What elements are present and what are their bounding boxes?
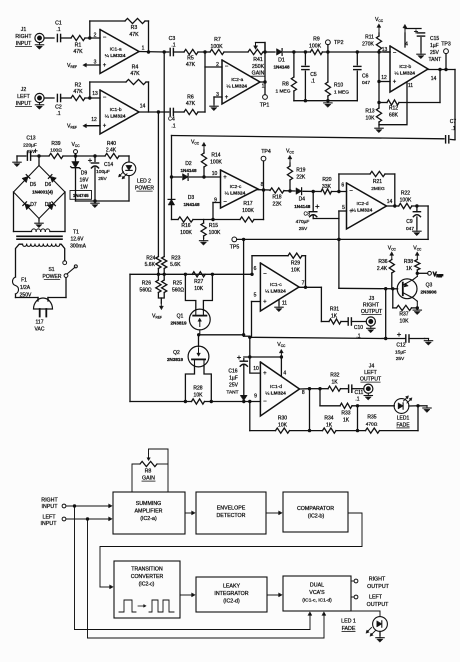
svg-text:R13: R13 xyxy=(365,109,374,115)
svg-text:22K: 22K xyxy=(273,201,283,207)
resistor R32 1K xyxy=(328,373,341,392)
svg-text:OUTPUT: OUTPUT xyxy=(360,377,382,383)
svg-text:C5: C5 xyxy=(310,72,317,78)
svg-text:D6: D6 xyxy=(45,182,52,188)
ground at bridge bottom xyxy=(35,219,43,228)
capacitor C2 .1 xyxy=(55,94,62,117)
svg-text:560Ω: 560Ω xyxy=(172,287,184,293)
svg-text:RIGHT: RIGHT xyxy=(363,303,380,309)
bridge rectifier D5-D8 xyxy=(14,166,66,219)
wires bridge to secondary xyxy=(14,192,66,232)
svg-text:12.6V: 12.6V xyxy=(70,237,84,243)
svg-text:C3: C3 xyxy=(169,36,176,42)
wire Q2 source to R28 xyxy=(204,367,211,402)
resistor R10 1 MEG xyxy=(325,82,349,96)
svg-text:C13: C13 xyxy=(26,136,35,142)
svg-text:100K: 100K xyxy=(210,44,223,50)
svg-text:2N3819: 2N3819 xyxy=(167,357,184,362)
svg-text:LEFT: LEFT xyxy=(364,370,378,376)
svg-text:−: − xyxy=(393,51,397,57)
resistor R19 22K xyxy=(287,166,306,180)
svg-text:47K: 47K xyxy=(186,101,196,107)
wire feedback IC2-d xyxy=(339,174,370,192)
svg-text:12: 12 xyxy=(381,75,387,81)
op-amp IC2-d 1/4 LM324 xyxy=(347,183,393,229)
wire feedback IC1-c xyxy=(252,256,288,275)
svg-text:1K: 1K xyxy=(326,422,333,428)
svg-text:POWER: POWER xyxy=(135,186,154,192)
svg-text:¼ LM324: ¼ LM324 xyxy=(265,391,286,397)
block COMPARATOR IC2-b xyxy=(283,492,348,532)
svg-text:RIGHT: RIGHT xyxy=(369,577,386,583)
wire to IC1-b pin 13 xyxy=(85,96,100,99)
svg-text:33K: 33K xyxy=(322,184,332,190)
block wire left input xyxy=(62,517,112,521)
svg-text:+: + xyxy=(263,371,267,377)
svg-text:INPUT: INPUT xyxy=(42,504,59,510)
svg-text:22K: 22K xyxy=(296,174,306,180)
wire xyxy=(356,406,359,433)
svg-text:R12: R12 xyxy=(389,106,398,112)
ground under LED 1 xyxy=(376,631,384,642)
wire IC1-a output node xyxy=(139,50,166,53)
svg-text:C10: C10 xyxy=(354,325,363,331)
wire xyxy=(412,204,428,207)
block potentiometer R8 GAIN xyxy=(140,449,168,482)
svg-text:¼ LM324: ¼ LM324 xyxy=(105,114,126,120)
wire IC1-c pin 11 xyxy=(279,300,287,307)
svg-text:D1: D1 xyxy=(278,58,285,64)
resistor R27 10K xyxy=(192,272,205,292)
svg-text:TP5: TP5 xyxy=(230,245,240,251)
capacitor C4 .1 xyxy=(168,108,176,129)
ground under C15 xyxy=(417,52,425,59)
svg-text:LED1: LED1 xyxy=(397,416,410,422)
wire control down to gates xyxy=(244,239,250,336)
resistor R15 100K xyxy=(201,220,221,239)
svg-text:INPUT: INPUT xyxy=(16,41,32,47)
svg-text:DUAL: DUAL xyxy=(310,583,324,589)
svg-text:1N4148: 1N4148 xyxy=(183,202,200,207)
svg-text:LEAKY: LEAKY xyxy=(223,584,241,590)
svg-text:R28: R28 xyxy=(193,386,202,392)
svg-text:100Ω: 100Ω xyxy=(50,148,62,154)
wire xyxy=(248,336,251,357)
svg-text:2.4K: 2.4K xyxy=(377,266,388,272)
wire xyxy=(416,270,419,275)
ground under C9 xyxy=(413,229,421,236)
wire pin 9 down to R30 xyxy=(249,402,251,431)
svg-text:1µF: 1µF xyxy=(229,376,238,382)
svg-text:S1: S1 xyxy=(48,267,54,273)
fuse F1 1/2A 250V xyxy=(13,277,32,299)
ground at IC2-a pin 3 xyxy=(210,104,218,111)
svg-text:1K: 1K xyxy=(343,417,350,423)
wire feedback IC1-b xyxy=(90,82,126,98)
svg-text:2.4K: 2.4K xyxy=(106,148,117,154)
svg-text:R41: R41 xyxy=(253,57,263,63)
svg-text:C14: C14 xyxy=(104,162,113,168)
wire control to IC1-c pin 5 xyxy=(252,302,261,337)
capacitor C12 15uF 25V xyxy=(386,333,425,362)
ground under C14 xyxy=(91,201,99,208)
wire IC1-d output xyxy=(300,387,312,390)
wire IC1-b output node xyxy=(139,110,160,113)
node VREF terminal xyxy=(417,271,443,278)
svg-text:J2: J2 xyxy=(21,87,27,93)
svg-text:+: + xyxy=(223,175,227,181)
svg-text:−: − xyxy=(349,189,353,195)
wire xyxy=(214,97,222,104)
resistor R17 100K xyxy=(240,201,254,222)
resistor R26 560 xyxy=(140,280,161,293)
svg-text:10K: 10K xyxy=(366,115,376,121)
svg-text:1: 1 xyxy=(262,84,265,90)
svg-text:R39: R39 xyxy=(51,141,60,147)
block wire right input xyxy=(62,504,112,508)
wire IC2-d output xyxy=(387,205,399,207)
wire xyxy=(44,37,54,39)
svg-text:68K: 68K xyxy=(389,112,399,118)
svg-text:C11: C11 xyxy=(355,390,364,396)
wire R12 to output xyxy=(399,68,442,103)
op-amp IC1-d 1/4 LM324 xyxy=(254,362,305,416)
power VCC above R19 xyxy=(286,149,295,167)
svg-text:+: + xyxy=(103,124,107,130)
wire pin 13 stub xyxy=(384,51,390,53)
block LED 1 FADE xyxy=(341,617,387,636)
resistor R34 1K xyxy=(323,416,337,434)
switch S1 POWER xyxy=(43,261,78,280)
svg-text:RIGHT: RIGHT xyxy=(15,34,32,40)
power VCC arrow to IC2-b pin 4 xyxy=(403,25,408,48)
svg-text:R27: R27 xyxy=(194,279,203,285)
svg-text:C16: C16 xyxy=(228,369,237,375)
svg-text:25V: 25V xyxy=(299,226,308,232)
label T1 12.6V 300mA xyxy=(70,230,87,250)
wire IC2-a output feedback xyxy=(260,43,267,84)
wire xyxy=(193,219,240,221)
svg-text:IC2-c: IC2-c xyxy=(230,184,242,190)
svg-text:C2: C2 xyxy=(55,105,62,111)
svg-text:15µF: 15µF xyxy=(395,349,406,355)
power VCC above R36 xyxy=(388,246,397,260)
transistor Q2 2N3819 xyxy=(167,346,209,367)
svg-text:FADE: FADE xyxy=(396,422,410,428)
svg-text:4: 4 xyxy=(405,42,408,48)
svg-text:TANT: TANT xyxy=(226,390,238,396)
wire xyxy=(393,306,419,309)
svg-text:R15: R15 xyxy=(209,223,218,229)
svg-text:.1: .1 xyxy=(356,334,360,340)
ground arrow C16 to rail xyxy=(240,395,247,400)
svg-text:LEFT: LEFT xyxy=(369,595,383,601)
jack J4 LEFT OUTPUT xyxy=(360,364,382,383)
wire xyxy=(198,335,200,347)
plug 117 VAC xyxy=(34,298,53,332)
block wire right input to vca xyxy=(75,612,312,630)
svg-text:DETECTOR: DETECTOR xyxy=(216,513,245,519)
svg-text:.1: .1 xyxy=(355,397,359,403)
svg-text:Q1: Q1 xyxy=(177,314,184,320)
ground after C12 xyxy=(424,339,432,346)
block wire left input to vca xyxy=(88,612,326,638)
diode D1 1N4148 xyxy=(273,49,290,70)
wire xyxy=(321,321,347,323)
capacitor C5 .1 xyxy=(302,52,317,101)
svg-text:1K: 1K xyxy=(331,313,338,319)
wire loop to R28 line xyxy=(130,274,192,403)
wire to IC2-b pin 12 xyxy=(379,75,390,82)
ground left of C13 xyxy=(13,156,26,167)
svg-text:¼ LM324: ¼ LM324 xyxy=(225,191,246,197)
resistor R22 100K xyxy=(399,191,412,209)
resistor R5 47K xyxy=(184,49,198,68)
svg-text:GAIN: GAIN xyxy=(142,476,155,482)
svg-text:OUTPUT: OUTPUT xyxy=(361,309,383,315)
node VREF to IC1-a pin 3 xyxy=(67,63,100,69)
transformer T1 primary winding xyxy=(16,244,65,277)
svg-text:100K: 100K xyxy=(400,197,412,203)
svg-text:−: − xyxy=(223,200,227,206)
svg-text:1: 1 xyxy=(142,46,145,52)
block arrow to leaky integrator xyxy=(180,593,195,597)
ground at IC1-c pin 11 xyxy=(275,305,283,312)
svg-text:2: 2 xyxy=(216,62,219,68)
svg-text:2N3906: 2N3906 xyxy=(420,290,437,295)
block wire comparator to transition converter xyxy=(100,513,362,589)
svg-text:−: − xyxy=(263,272,267,278)
resistor R16 100K xyxy=(178,217,193,236)
wire output down to R30 xyxy=(309,389,311,431)
svg-text:(IC2-a): (IC2-a) xyxy=(140,516,157,522)
svg-text:¼ LM324: ¼ LM324 xyxy=(352,208,373,214)
svg-text:R4: R4 xyxy=(132,65,139,71)
wire xyxy=(173,111,184,113)
svg-text:6: 6 xyxy=(341,182,344,188)
wire IC2-c pin 9 xyxy=(211,203,220,222)
wire xyxy=(145,21,150,54)
svg-text:470µF: 470µF xyxy=(296,219,310,225)
svg-text:47K: 47K xyxy=(73,89,83,95)
svg-text:SUMMING: SUMMING xyxy=(136,501,162,507)
svg-text:25V: 25V xyxy=(229,383,239,389)
svg-text:D3: D3 xyxy=(188,195,195,201)
wire xyxy=(158,269,164,281)
svg-text:R18: R18 xyxy=(272,195,281,201)
diode D4 1N4148 xyxy=(294,188,311,209)
resistor R2 47K xyxy=(71,83,85,101)
svg-text:5.6K: 5.6K xyxy=(145,262,156,268)
op-amp IC2-c 1/4 LM324 xyxy=(212,170,264,208)
resistor R4 47K xyxy=(126,65,146,85)
svg-text:OUTPUT: OUTPUT xyxy=(367,584,390,590)
svg-text:FADE: FADE xyxy=(342,626,356,632)
wire IC2-c input branch xyxy=(170,136,173,220)
label LEFT INPUT xyxy=(41,515,58,528)
svg-text:D5: D5 xyxy=(30,182,37,188)
svg-text:220µF: 220µF xyxy=(23,142,37,148)
svg-text:300mA: 300mA xyxy=(70,244,87,250)
svg-text:R38: R38 xyxy=(404,259,413,265)
power VCC terminal xyxy=(71,142,80,156)
svg-text:C8: C8 xyxy=(304,212,311,218)
test point TP2 xyxy=(326,40,344,52)
svg-text:POWER: POWER xyxy=(43,274,62,280)
svg-text:2: 2 xyxy=(94,32,97,38)
svg-text:−: − xyxy=(103,95,107,101)
wire R27 right to Q1 source xyxy=(203,274,212,310)
svg-text:R30: R30 xyxy=(278,416,287,422)
block DUAL VCAS IC1-c IC1-d xyxy=(283,576,351,611)
svg-text:7: 7 xyxy=(302,280,305,286)
resistor R1 47K xyxy=(71,35,85,55)
svg-text:47K: 47K xyxy=(129,32,139,38)
svg-text:6: 6 xyxy=(254,266,257,272)
svg-text:−: − xyxy=(263,399,267,405)
ground under R13 xyxy=(375,122,383,133)
ground xyxy=(35,43,43,50)
svg-text:560Ω: 560Ω xyxy=(140,287,152,293)
svg-text:R6: R6 xyxy=(187,95,194,101)
svg-text:R14: R14 xyxy=(211,153,220,159)
resistor R37 10K xyxy=(397,305,412,324)
wire IC1-c output down xyxy=(299,287,321,321)
wire xyxy=(172,219,179,221)
svg-text:100µF: 100µF xyxy=(96,169,110,175)
ground under R15 xyxy=(199,239,207,246)
diode D9 1N4745 zener 16V xyxy=(71,156,89,201)
LED2 POWER xyxy=(119,162,155,192)
svg-text:.1: .1 xyxy=(451,126,455,132)
svg-text:5: 5 xyxy=(342,205,345,211)
svg-text:14: 14 xyxy=(140,104,146,110)
resistor R9 100K xyxy=(309,37,322,55)
capacitor C7 .1 and long wire to IC2-c xyxy=(172,119,457,143)
block SUMMING AMPLIFIER IC2-a xyxy=(113,492,185,534)
wire switch to plug xyxy=(48,278,66,302)
wire xyxy=(302,256,307,289)
svg-text:IC2-b: IC2-b xyxy=(399,64,411,70)
wire xyxy=(293,52,295,77)
svg-text:1K: 1K xyxy=(331,379,338,385)
node VREF below R25 R26 xyxy=(152,293,164,320)
transformer T1 secondary winding xyxy=(14,229,66,232)
jack J3 RIGHT OUTPUT xyxy=(361,296,383,315)
block arrow to comparator xyxy=(266,511,282,515)
resistor R31 1K xyxy=(329,307,341,325)
svg-text:1N4745: 1N4745 xyxy=(73,193,89,198)
svg-text:9: 9 xyxy=(254,393,257,399)
wire control to C12 xyxy=(250,337,388,340)
svg-text:25V: 25V xyxy=(27,149,36,155)
wire C8 to Q3 base line xyxy=(337,219,340,289)
capacitor C16 1uF 25V TANT xyxy=(226,356,247,396)
block arrow to envelope detector xyxy=(185,511,195,515)
svg-text:1N4148: 1N4148 xyxy=(273,65,290,70)
svg-text:.1: .1 xyxy=(311,78,315,84)
block TRANSITION CONVERTER IC2-c xyxy=(114,561,180,618)
connector J2 xyxy=(35,93,44,102)
wire xyxy=(380,430,419,432)
svg-text:R25: R25 xyxy=(173,281,182,287)
svg-text:25V: 25V xyxy=(396,356,405,362)
svg-text:D4: D4 xyxy=(299,197,306,203)
svg-text:LEFT: LEFT xyxy=(43,515,57,521)
test point TP3 xyxy=(441,42,451,70)
capacitor C1 .1 xyxy=(55,21,62,42)
svg-text:R8: R8 xyxy=(145,469,152,475)
svg-text:5: 5 xyxy=(254,293,257,299)
capacitor C14 100uF 25V xyxy=(88,156,113,201)
wire xyxy=(284,50,296,53)
wire xyxy=(63,154,105,157)
wire C8 to IC2-d pin 5 xyxy=(313,205,346,219)
resistor R6 47K xyxy=(184,95,198,115)
svg-text:100K: 100K xyxy=(309,43,322,49)
labels D5 D6 xyxy=(30,182,52,188)
svg-text:C15: C15 xyxy=(430,36,439,42)
diode D3 1N4148 xyxy=(168,195,200,207)
svg-text:10: 10 xyxy=(212,171,218,177)
capacitor C13 220uF 25V xyxy=(23,136,37,161)
wire gate line xyxy=(197,333,245,336)
svg-text:470Ω: 470Ω xyxy=(366,421,378,427)
svg-text:IC2-d: IC2-d xyxy=(357,201,369,207)
svg-text:AMPLIFIER: AMPLIFIER xyxy=(135,509,163,515)
svg-text:¼ LM324: ¼ LM324 xyxy=(265,289,286,295)
svg-text:1K: 1K xyxy=(406,266,413,272)
wire xyxy=(327,52,329,82)
wire xyxy=(31,154,49,157)
block wire right input down xyxy=(73,504,76,629)
svg-text:47K: 47K xyxy=(130,71,140,77)
svg-text:D2: D2 xyxy=(185,161,192,167)
wire fuse to plug xyxy=(16,294,39,301)
wire xyxy=(294,50,311,53)
transformer T1 core xyxy=(17,236,62,239)
ground under J4 xyxy=(364,393,372,400)
wire xyxy=(61,37,71,39)
LED1 FADE xyxy=(394,396,412,428)
op-amp IC2-b 1/4 LM324 xyxy=(390,46,436,92)
wire R28 to IC1-d pin 9 xyxy=(205,400,261,403)
svg-text:.1: .1 xyxy=(56,27,60,33)
resistor R39 100 xyxy=(49,141,63,159)
svg-text:25V: 25V xyxy=(430,50,440,56)
wire xyxy=(310,387,322,390)
svg-text:R37: R37 xyxy=(399,312,408,318)
svg-text:1µF: 1µF xyxy=(430,43,439,49)
wire feedback IC1-a xyxy=(90,21,125,38)
svg-text:VCA'S: VCA'S xyxy=(309,590,325,596)
labels D7 D8 xyxy=(30,202,51,208)
wire xyxy=(224,51,248,53)
block ENVELOPE DETECTOR xyxy=(196,492,266,534)
block wire to LED1 xyxy=(351,611,380,617)
svg-text:R10: R10 xyxy=(334,83,343,89)
svg-text:R24: R24 xyxy=(146,255,155,261)
svg-text:OUTPUT: OUTPUT xyxy=(367,602,390,608)
svg-text:250K: 250K xyxy=(252,64,265,70)
svg-text:14: 14 xyxy=(431,76,437,82)
wire down to control line xyxy=(427,206,429,239)
wire control line xyxy=(237,238,428,241)
resistor R14 100K xyxy=(201,153,222,168)
svg-text:2N3819: 2N3819 xyxy=(170,320,187,325)
ground under J3 xyxy=(367,326,375,333)
svg-text:LED 2: LED 2 xyxy=(137,179,151,185)
